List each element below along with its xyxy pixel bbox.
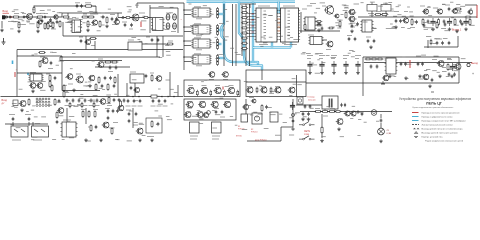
value label n135 bbox=[138, 39, 141, 41]
transistor VT53 bbox=[117, 105, 124, 111]
value label n3 bbox=[11, 20, 14, 22]
value label n354 bbox=[215, 114, 221, 116]
resistor R62 bbox=[111, 127, 113, 135]
value label n82 bbox=[409, 11, 413, 13]
value label n138 bbox=[326, 55, 330, 57]
wire blue stub K1 bbox=[218, 13, 224, 15]
value label n327 bbox=[88, 99, 93, 101]
value label n51 bbox=[211, 13, 214, 15]
value label n55 bbox=[195, 26, 198, 28]
svg-text:Выход цепей питания узлов: Выход цепей питания узлов bbox=[422, 131, 459, 134]
value label n134 bbox=[131, 37, 136, 39]
transistor VT11 bbox=[436, 9, 443, 14]
capacitor C2 bbox=[22, 16, 26, 19]
wire bbox=[95, 6, 97, 13]
resistor R57 bbox=[56, 111, 58, 119]
label VS2 bbox=[202, 85, 207, 87]
value label bbox=[310, 3, 316, 5]
value label n326 bbox=[79, 97, 83, 99]
wire box B top bbox=[363, 56, 459, 58]
capacitor CE13 bbox=[173, 23, 177, 29]
value label n331 bbox=[88, 84, 92, 86]
wire bottom link bbox=[247, 140, 281, 142]
resistor R46 bbox=[51, 84, 53, 92]
ground bbox=[344, 71, 348, 74]
ground bbox=[138, 138, 142, 141]
ground G2 bbox=[2, 38, 6, 44]
resistor RD41 bbox=[217, 54, 219, 60]
value label n66 bbox=[349, 23, 353, 25]
label CC3 bbox=[138, 105, 143, 107]
svg-text:К блоку: К блоку bbox=[308, 97, 315, 99]
value label n53 bbox=[203, 5, 207, 7]
capacitor CB4 bbox=[84, 98, 87, 102]
value label n204 bbox=[201, 81, 204, 83]
value label n162 bbox=[402, 56, 405, 58]
ground bbox=[31, 89, 35, 92]
wire red pot mark bbox=[140, 22, 142, 28]
transistor VT8 bbox=[348, 16, 355, 22]
ground G4 bbox=[291, 127, 295, 130]
value label n341 bbox=[139, 122, 143, 124]
value label n24 bbox=[77, 10, 82, 12]
value label n47 bbox=[194, 25, 198, 27]
capacitor C1 bbox=[8, 16, 12, 19]
value label n373 bbox=[223, 39, 227, 41]
value label n62 bbox=[282, 42, 286, 44]
value label n91 bbox=[402, 15, 406, 17]
svg-text:Рядом графические обозначения: Рядом графические обозначения цепей bbox=[425, 139, 464, 142]
resistor R63 bbox=[151, 120, 153, 128]
value label n67 bbox=[335, 22, 338, 24]
capacitor C90 bbox=[41, 19, 44, 23]
value label n99 bbox=[424, 10, 427, 12]
label D4 bbox=[194, 53, 201, 55]
value label n239 bbox=[52, 139, 56, 141]
capacitor C30 bbox=[307, 61, 312, 69]
wire bbox=[126, 83, 128, 97]
label VTR3 bbox=[212, 101, 217, 103]
transistor VT44 bbox=[467, 10, 473, 14]
svg-text:РЭС10: РЭС10 bbox=[251, 132, 258, 134]
capacitor C19 bbox=[448, 7, 451, 11]
resistor R32 bbox=[89, 38, 97, 40]
wire blue stub D bbox=[277, 2, 279, 14]
value label n366 bbox=[407, 63, 411, 65]
value label n118 bbox=[460, 5, 465, 7]
value label n70 bbox=[343, 10, 348, 12]
resistor R23 bbox=[328, 27, 335, 29]
label input red underline bbox=[3, 12, 10, 14]
value label n245 bbox=[127, 140, 132, 142]
wire digital bus 4 bbox=[245, 4, 247, 66]
logic IC D3 bbox=[191, 39, 211, 48]
capacitor C106 bbox=[321, 26, 324, 30]
wire top frame bbox=[137, 2, 184, 4]
transistor VT42 bbox=[451, 9, 457, 14]
value label n198 bbox=[225, 85, 230, 87]
value label n79 bbox=[345, 7, 348, 9]
svg-text:ЛЕЛЬ ЦГ: ЛЕЛЬ ЦГ bbox=[426, 101, 443, 106]
ground bbox=[379, 139, 383, 142]
value label n315 bbox=[158, 103, 163, 105]
resistor RS5 bbox=[256, 87, 258, 94]
value label n318 bbox=[36, 99, 40, 101]
wire red stub bbox=[14, 72, 16, 77]
value label n201 bbox=[204, 79, 207, 81]
resistor R66 bbox=[328, 111, 336, 113]
wire blue bus top bbox=[187, 0, 296, 2]
value label n173 bbox=[171, 103, 174, 105]
value label n258 bbox=[433, 43, 438, 45]
svg-text:Вход: Вход bbox=[3, 10, 9, 13]
value label n109 bbox=[451, 17, 454, 19]
value label n349 bbox=[199, 118, 203, 120]
value label bbox=[302, 8, 307, 10]
resistor R27 bbox=[411, 18, 413, 26]
value label n251 bbox=[166, 115, 170, 117]
label D5 type bbox=[259, 44, 268, 46]
value label n273 bbox=[101, 24, 104, 26]
value label bbox=[139, 12, 145, 14]
value label n122 bbox=[50, 51, 53, 53]
value label n336 bbox=[139, 123, 144, 125]
resistor R82 bbox=[59, 20, 61, 28]
capacitor C39 bbox=[441, 41, 444, 45]
resistor R7 bbox=[84, 5, 93, 7]
value label n320 bbox=[47, 104, 52, 106]
value label n20 bbox=[78, 26, 82, 28]
wire IC D1 in1 bbox=[184, 9, 191, 11]
wire box A top bbox=[17, 55, 62, 57]
capacitor C23 bbox=[115, 65, 118, 69]
value label n351 bbox=[293, 113, 297, 115]
resistor RL3 bbox=[241, 17, 248, 19]
transistor VT17 bbox=[382, 75, 389, 81]
value label n252 bbox=[142, 135, 146, 137]
value label n49 bbox=[201, 34, 204, 36]
transistor VT10 bbox=[422, 9, 429, 14]
value label n288 bbox=[396, 6, 400, 8]
value label n262 bbox=[87, 12, 91, 14]
value label bbox=[107, 105, 112, 107]
value label n151 bbox=[453, 70, 458, 72]
label CB4 bbox=[83, 105, 88, 107]
value label n86 bbox=[370, 1, 375, 3]
value label n65 bbox=[263, 14, 267, 16]
capacitor C96 bbox=[423, 23, 426, 27]
capacitor C34a bbox=[370, 64, 373, 68]
value label bbox=[63, 119, 71, 121]
value label n166 bbox=[114, 93, 117, 95]
resistor R25 bbox=[374, 14, 382, 16]
capacitor C62 bbox=[116, 109, 119, 113]
wire bbox=[66, 108, 68, 122]
ground bbox=[404, 76, 408, 79]
value label n54 bbox=[215, 57, 220, 59]
value label bbox=[404, 11, 408, 13]
value label n9 bbox=[21, 12, 24, 14]
value label n12 bbox=[12, 10, 15, 12]
value label n350 bbox=[230, 116, 233, 118]
value label n30 bbox=[170, 6, 174, 8]
ground bbox=[72, 88, 76, 91]
value label n85 bbox=[388, 2, 392, 4]
label D2 bbox=[194, 23, 201, 25]
wire trimmer stub 1 bbox=[371, 11, 373, 17]
value label n213 bbox=[289, 134, 294, 136]
value label n6 bbox=[29, 23, 34, 25]
resistor RL1 bbox=[241, 7, 248, 9]
value label n15 bbox=[92, 24, 95, 26]
capacitor C7 bbox=[102, 15, 105, 19]
wire long bottom bus bbox=[1, 96, 184, 98]
value label n219 bbox=[242, 129, 247, 131]
capacitor C35 bbox=[400, 62, 403, 66]
value label n359 bbox=[281, 35, 284, 37]
value label n130 bbox=[166, 44, 170, 46]
value label n371 bbox=[394, 76, 397, 78]
transistor VT14 bbox=[97, 62, 104, 68]
wire bbox=[94, 41, 96, 50]
value label n360 bbox=[269, 36, 273, 38]
label red pin marks bbox=[252, 14, 281, 32]
value label n106 bbox=[437, 8, 441, 10]
value label n14 bbox=[69, 19, 72, 21]
value label n154 bbox=[448, 69, 453, 71]
transistor VT29 bbox=[242, 104, 248, 109]
resistor R64 bbox=[314, 111, 322, 113]
resistor R93 bbox=[95, 83, 97, 91]
value label n11 bbox=[75, 17, 79, 19]
value label n269 bbox=[40, 9, 45, 11]
value label n194 bbox=[248, 104, 251, 106]
resistor R67 bbox=[321, 126, 323, 134]
value label n38 bbox=[159, 18, 163, 20]
value label n259 bbox=[435, 38, 440, 40]
wire feedback bus bbox=[34, 5, 96, 7]
wire bbox=[321, 69, 323, 72]
value label n92 bbox=[401, 27, 405, 29]
value label n293 bbox=[342, 4, 347, 6]
value label n234 bbox=[303, 116, 307, 118]
trimmer RP1 bbox=[367, 3, 377, 12]
wire box B right bbox=[458, 57, 460, 83]
capacitor C33 bbox=[343, 61, 348, 69]
wire digital bus 2 bbox=[232, 4, 234, 66]
value label n338 bbox=[32, 136, 37, 138]
value label n377 bbox=[218, 54, 223, 56]
value label n378 bbox=[230, 47, 234, 49]
value label n37 bbox=[141, 20, 146, 22]
capacitor CC1 bbox=[127, 99, 130, 103]
capacitor CE9 bbox=[463, 18, 468, 26]
label C30 bbox=[307, 55, 313, 57]
wire bbox=[322, 39, 327, 41]
value label n144 bbox=[315, 53, 319, 55]
wire mains link bbox=[296, 104, 322, 106]
transistor VT15 bbox=[437, 61, 444, 67]
resistor R48 bbox=[54, 98, 56, 106]
capacitor C64 bbox=[128, 119, 131, 123]
op-amp DA3 bbox=[360, 20, 373, 32]
resistor R91 bbox=[143, 17, 150, 19]
wire top section bottom bbox=[424, 46, 458, 48]
resistor R61 bbox=[90, 124, 92, 132]
wire box internal bbox=[246, 81, 306, 83]
ground bbox=[99, 138, 103, 141]
value label n160 bbox=[442, 67, 446, 69]
wire long bus 3 bbox=[60, 60, 122, 62]
value label n124 bbox=[56, 64, 59, 66]
transistor VT34 bbox=[336, 119, 343, 125]
wire bbox=[177, 85, 179, 97]
value label n41 bbox=[142, 15, 145, 17]
resistor R55 bbox=[261, 104, 263, 112]
capacitor CC2 bbox=[133, 99, 136, 103]
resistor RR4 bbox=[438, 18, 440, 26]
value label n36 bbox=[135, 4, 139, 6]
label VTR1 bbox=[187, 101, 192, 103]
value label n48 bbox=[191, 57, 197, 59]
capacitor CC3 bbox=[139, 99, 142, 103]
transistor VT22 bbox=[66, 74, 73, 80]
value label n266 bbox=[59, 12, 62, 14]
capacitor C91 bbox=[444, 22, 447, 26]
wire bbox=[280, 127, 282, 141]
label C31 bbox=[319, 55, 325, 57]
value label n283 bbox=[383, 2, 388, 4]
label CC4 bbox=[151, 105, 156, 107]
value label n68 bbox=[336, 25, 341, 27]
lamp HL1 bbox=[371, 110, 377, 116]
capacitor C101 bbox=[89, 84, 92, 88]
capacitor C73 bbox=[344, 103, 346, 107]
wire bbox=[309, 69, 311, 72]
capacitor C57 bbox=[56, 120, 59, 124]
value label n202 bbox=[289, 94, 292, 96]
svg-text:+: + bbox=[472, 72, 474, 76]
resistor R95 bbox=[49, 80, 51, 88]
transistor VT1 bbox=[25, 14, 32, 20]
value label n4 bbox=[52, 11, 55, 13]
transistor VT36 bbox=[350, 111, 357, 116]
value label n355 bbox=[250, 114, 253, 116]
value label n132 bbox=[166, 51, 170, 53]
IC DA4 bbox=[128, 42, 142, 50]
transistor VT40 bbox=[53, 15, 59, 19]
transistor VT20 bbox=[36, 83, 43, 89]
value label n233 bbox=[357, 135, 360, 137]
label VD3 bbox=[33, 139, 42, 141]
svg-text:Провода к цифровой части схемы: Провода к цифровой части схемы bbox=[422, 115, 453, 118]
ground bbox=[17, 29, 21, 32]
value label n256 bbox=[140, 133, 143, 135]
legend row 6 mark bbox=[415, 132, 418, 134]
label D4 type bbox=[196, 65, 202, 67]
resistor R60 bbox=[94, 110, 96, 118]
value label n380 bbox=[219, 23, 224, 25]
label CC5 bbox=[157, 105, 162, 107]
value label n344 bbox=[35, 123, 40, 125]
value label bbox=[126, 109, 131, 111]
value label bbox=[394, 11, 399, 13]
value label n44 bbox=[189, 3, 192, 5]
op-amp DA7 bbox=[308, 37, 323, 45]
value label bbox=[112, 24, 117, 26]
value label n119 bbox=[423, 26, 427, 28]
value label n287 bbox=[320, 2, 325, 4]
wire blue bus C bbox=[252, 2, 254, 63]
value label n220 bbox=[264, 127, 269, 129]
value label n13 bbox=[79, 18, 82, 20]
value label n244 bbox=[69, 137, 74, 139]
transistor VT46 bbox=[133, 87, 139, 92]
value label n43 bbox=[193, 13, 197, 15]
wire stage bus bbox=[62, 12, 122, 14]
wire bbox=[300, 12, 302, 33]
value label n185 bbox=[163, 96, 168, 98]
capacitor CB6 bbox=[96, 98, 99, 102]
value label n184 bbox=[135, 100, 138, 102]
value label n295 bbox=[413, 21, 416, 23]
value label n181 bbox=[19, 88, 23, 90]
value label n232 bbox=[358, 118, 361, 120]
transistor VT50 bbox=[208, 72, 215, 78]
wire red mark bbox=[409, 60, 411, 68]
value label n158 bbox=[432, 70, 437, 72]
value label bbox=[76, 73, 81, 75]
legend row 2 mark bbox=[412, 116, 419, 118]
resistor RL6 bbox=[241, 32, 248, 34]
value label n348 bbox=[247, 113, 252, 115]
value label bbox=[376, 11, 381, 13]
value label bbox=[46, 73, 50, 75]
value label n149 bbox=[461, 58, 466, 60]
transistor VT3 bbox=[91, 20, 98, 25]
resistor RD31 bbox=[217, 38, 219, 44]
value label n29 bbox=[127, 11, 131, 13]
value label n267 bbox=[93, 11, 98, 13]
wire IC D2 in1 bbox=[184, 26, 191, 28]
capacitor CE12 bbox=[166, 23, 170, 29]
wire blue stub E bbox=[276, 8, 279, 10]
wire left vertical rail bbox=[16, 50, 18, 97]
value label n126 bbox=[32, 54, 35, 56]
value label bbox=[48, 68, 53, 70]
value label n165 bbox=[93, 95, 98, 97]
value label n296 bbox=[337, 27, 341, 29]
wire relay chain bbox=[245, 99, 247, 116]
IC D5 counter bbox=[254, 8, 278, 42]
label VT51 bbox=[223, 79, 228, 81]
transistor VT21 bbox=[19, 101, 26, 107]
value label bbox=[122, 21, 127, 23]
value label n28 bbox=[127, 6, 132, 8]
value label n228 bbox=[340, 136, 344, 138]
value label n101 bbox=[428, 22, 433, 24]
resistor RD42 bbox=[217, 57, 219, 63]
label CC2 bbox=[132, 105, 137, 107]
value label n159 bbox=[421, 54, 426, 56]
value label bbox=[147, 136, 154, 138]
value label n100 bbox=[454, 24, 459, 26]
capacitor C48 bbox=[118, 98, 121, 102]
value label n253 bbox=[10, 124, 14, 126]
connector XS1 bbox=[2, 15, 8, 19]
value label n268 bbox=[89, 10, 93, 12]
value label bbox=[171, 31, 176, 33]
